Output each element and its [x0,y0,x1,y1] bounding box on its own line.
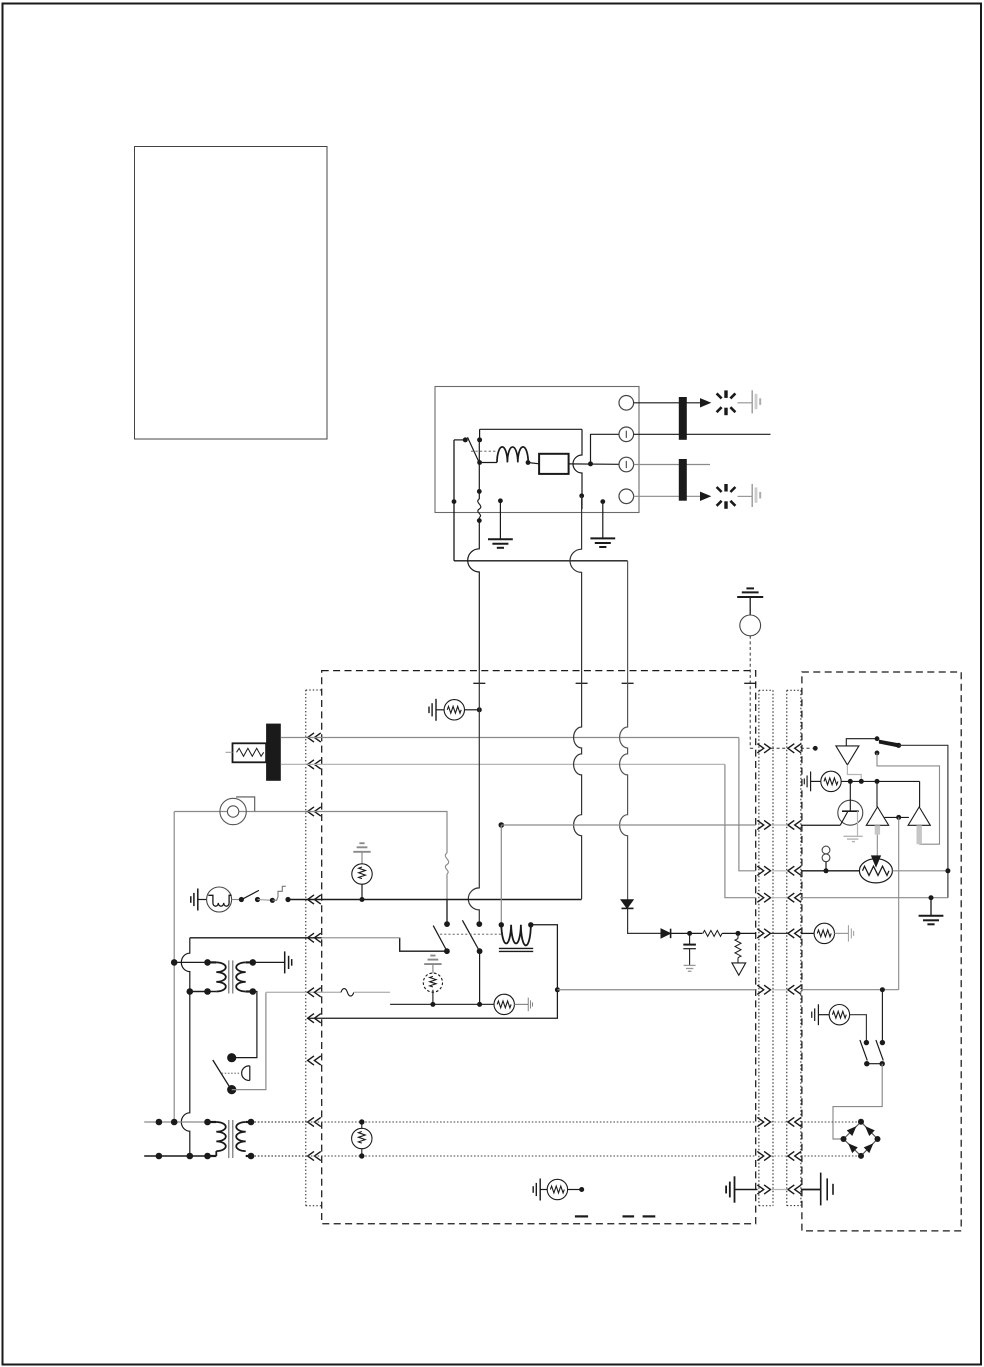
earth ground above probe [737,588,763,597]
bridge rectifier BR1 [844,1122,878,1156]
switch output wire [899,745,948,897]
inverted earth ground above PTC [424,956,441,965]
feedback wire [877,753,940,844]
row 1189 big chassis ground [801,1189,821,1191]
T2 primary bottom spine join [215,1151,217,1156]
empty info box top-left [135,147,328,440]
lamp (flash) symbol 1 [724,390,727,398]
wire stub row 2 [634,433,771,435]
wire bar to box row2 [281,763,308,765]
flex loop on wire [445,853,448,874]
switch pair S4 [864,1040,869,1045]
lamp (flash) symbol 2 [724,484,727,492]
switch blade S3 [879,740,898,747]
buffer U3 (up triangle) [866,807,888,825]
diode D2 (horizontal) [661,929,670,938]
wire to lamp 2 [634,495,701,497]
capacitor C1 [689,933,691,944]
gray row 825 from relay coil [499,822,505,828]
inverter output elbow [847,765,861,782]
gray earth ground below C1 [684,965,696,971]
node row 781 [841,780,919,782]
probe circle [740,615,761,636]
vertical AC feed right [627,561,629,671]
row 764 inside [307,763,725,765]
transformer T2 row top [144,1121,216,1123]
switch1 return to T1 [400,938,447,951]
earth ground to row 1189 right [726,1176,734,1202]
inductor L1 (relay coil, power module) [477,460,482,465]
link between buffers [885,816,909,818]
chassis ground right of T1 [285,951,292,973]
wire: bottom AC rail [454,560,628,562]
node B top [477,437,482,442]
diode D1 (vertical) [621,900,633,909]
connector bar 2 (black) [679,459,687,501]
transistor Q1 [838,800,863,825]
lamp ground 2 [751,484,753,507]
main vertical wire4 with hops [620,671,628,900]
switch2 down [479,951,481,1004]
PTC thermistor (dashed circle) [423,973,442,992]
sense wire down from buffers [898,817,900,989]
connector bar with resistor (degauss) [266,724,281,781]
right connector dotted strip B [786,690,788,1205]
row737 corner down to 870 [739,738,756,871]
row764 corner down to 897 [725,764,756,897]
relay K2 contacts [444,921,450,927]
connector bar 1 (black) [679,397,687,440]
T2 row bottom [144,1155,216,1157]
row 990 into panel [801,989,899,991]
T1 primary bottom [187,988,194,995]
T2 secondary dotted leads [248,1119,255,1126]
inline resistor R3 [494,994,514,1014]
wire: fan feed down left [173,812,175,1123]
ground G1 below module [498,498,503,503]
row 990 gray [557,989,755,991]
motorized rheostat RV1 [859,859,892,883]
wire to switch S4 [850,1015,867,1043]
dotted wires to bridge [801,1121,858,1123]
fan/blower B1 [174,811,307,813]
row 992 to main box [266,991,341,993]
coil right to row1018 [307,925,557,1018]
wire bar to box row1 [281,737,308,739]
ground G2 below module [600,499,605,504]
buzzer switch contacts [227,1053,236,1062]
resistor R4 on row 933 [703,929,723,937]
zener/resistor to arrow [735,933,741,963]
right connector dotted strip A [758,690,760,1206]
relay linkage (dashed) [471,450,496,452]
vertical rail x190 (switch return) [181,938,189,992]
heater/motor M1 with ground [191,889,198,911]
main unit dashed outline [322,671,756,1224]
wire: block output [569,463,619,465]
row 870 to rheostat [801,870,860,872]
wire T1 sec to buzzer switch [236,992,257,1058]
ticks where wires enter main box [473,682,485,684]
row 1189 ground + resistor [533,1179,540,1201]
connector circles on module edge [619,396,634,411]
lamp ground 1 [751,390,753,413]
right interface chevrons and links [757,744,770,753]
earth ground above RT2 [353,843,370,852]
rheostat right wire [892,870,948,872]
buffer U4 (up triangle) [908,807,930,825]
left interface chevrons [308,733,321,742]
thermistor RT1 with chassis ground [429,699,436,721]
hop of wire3 over AC rail [570,496,582,671]
row 811 corner down [307,812,447,854]
fuse squiggle on wire 2 [477,489,482,494]
arrow 1 [701,399,711,407]
wire with hop over output [573,429,582,509]
wire stub row 3 [634,464,710,466]
dashed stub with node dot [801,747,813,749]
control panel dashed outline [802,672,961,1231]
relay coil K2 [499,922,504,927]
resistor R8 with ground [812,1004,819,1025]
base row from interface [801,824,840,826]
power entry module box [435,387,639,513]
wire to bridge [833,1064,882,1139]
block U1 (rectifier module) [539,454,569,474]
resistor R-degauss box [233,743,267,762]
thermistor RT2 [352,864,372,884]
row 897 gray with ground [801,897,948,899]
resistor R5 between dotted rows [359,1119,364,1124]
wire: left leg of module [453,440,455,561]
dotted rows 1122/1156 across box [307,1121,755,1123]
main vertical wire3 with hops [574,671,582,899]
wire to lamp 1 [634,402,701,404]
thermo switch S2 [232,899,242,901]
thermal protector F1 [272,886,285,900]
resistor R6 with chassis ground [804,772,810,792]
dashed sense row 748 [750,747,756,749]
row 1004 [390,1003,494,1005]
redacted label dashes on bottom edge [575,1215,588,1217]
bridge diode arrows [848,1127,856,1135]
inverter U2 (down triangle) [836,746,859,765]
gray earth ground below Q1 [844,835,863,837]
buzzer BZ1 [242,1066,250,1081]
T1 secondary leads [250,959,257,966]
dashed sense line down into main box [749,636,751,749]
indicator (double circle) [822,846,830,854]
transformer T1 [174,961,216,963]
row 933 resistor with ground [801,932,814,934]
row 737 inside [307,737,739,739]
wire: top loop to output [480,428,582,430]
left connector dotted strip [305,690,307,1206]
switch S1 (relay contact in power module) [463,437,468,442]
main power row 899 [307,899,581,901]
wire buzzer to row992 [232,992,266,1089]
main vertical wire2 with hops [468,671,479,925]
